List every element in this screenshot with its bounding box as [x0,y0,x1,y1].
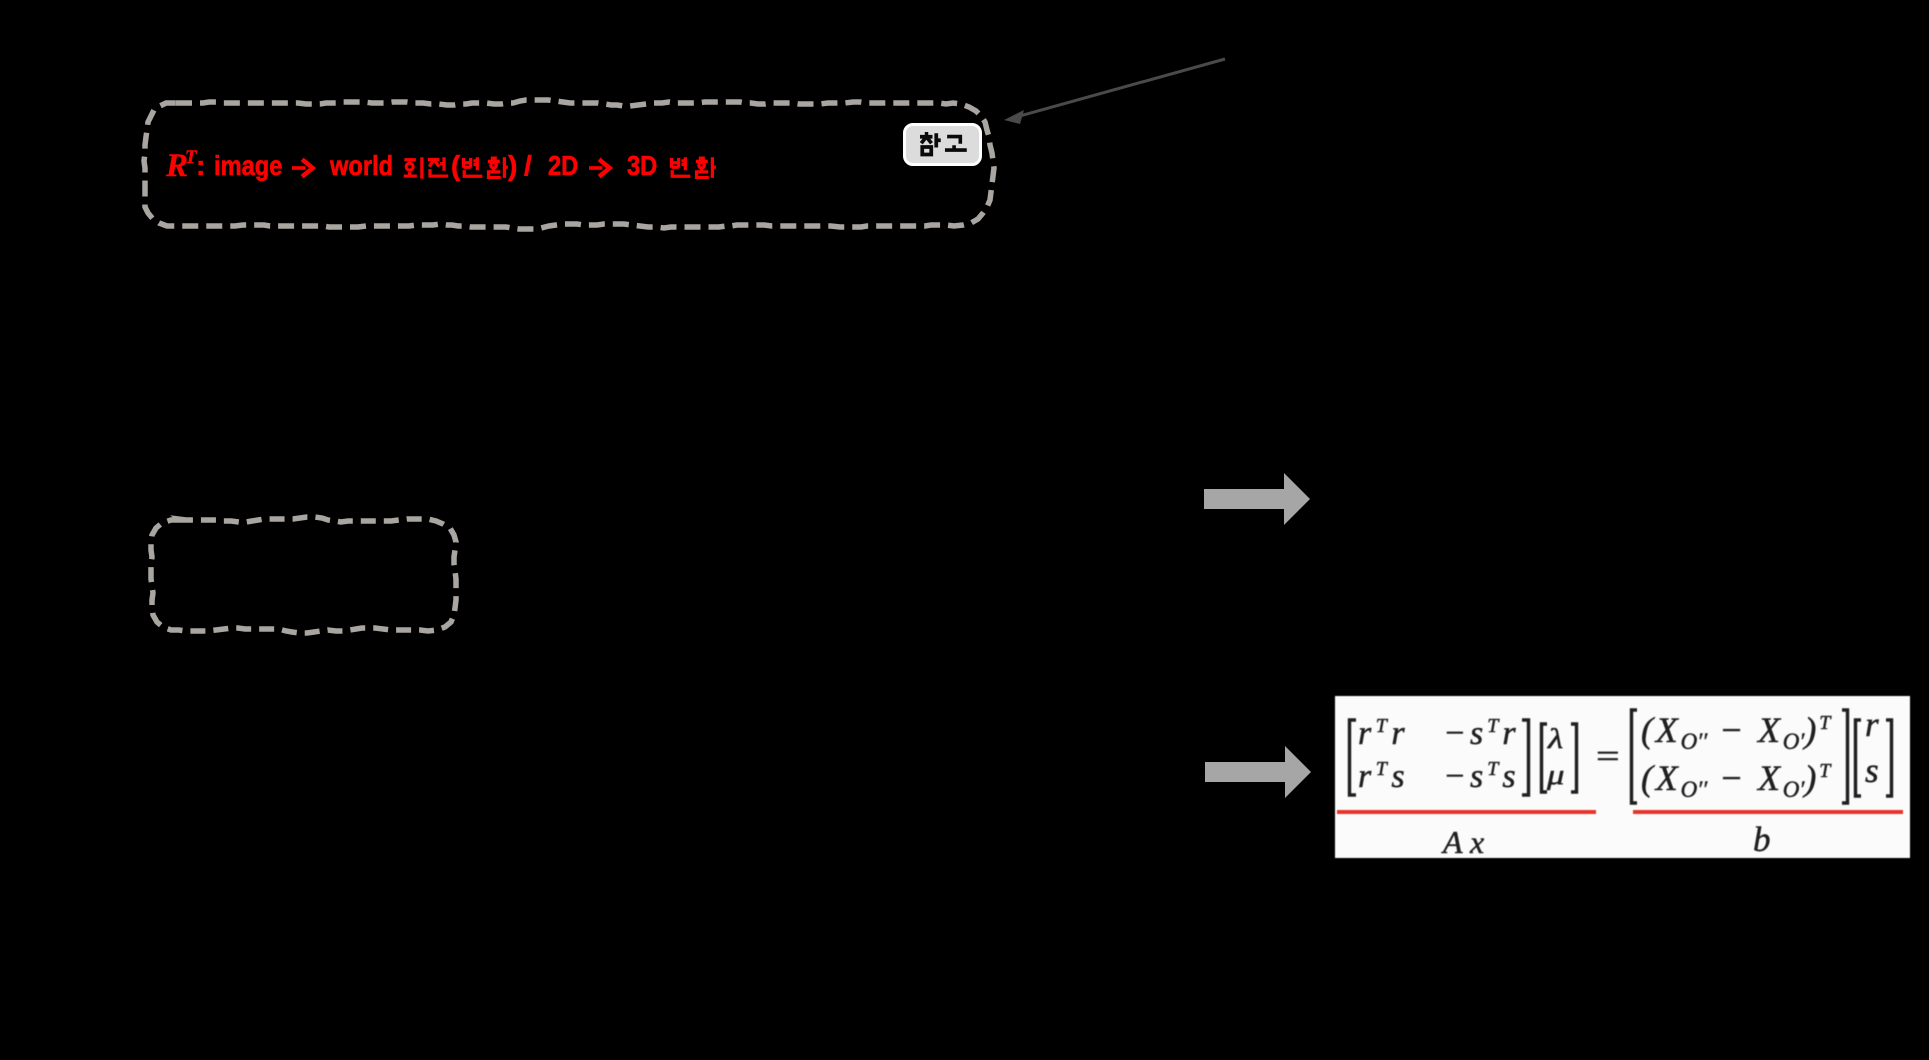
formula white box [1335,696,1910,858]
b label [1753,822,1771,857]
matrix 2 row 2 [1641,760,1833,796]
matrix 2 row 1 [1641,712,1833,748]
block arrow 1 [1204,473,1310,525]
equals [1596,741,1620,774]
defs for hangul glyphs [0,0,1,1]
red annotation text [0,0,1,1]
r s vector [1865,707,1879,742]
thin annotation arrow [1004,59,1225,124]
chamgo badge [903,123,982,166]
lambda mu vector [1548,726,1563,754]
brackets + red underlines [1335,696,1910,858]
matrix 1 row 1 [1358,717,1409,751]
A x label [1443,826,1484,858]
block arrow 2 [1205,746,1311,798]
matrix 1 row 2 [1358,760,1409,794]
